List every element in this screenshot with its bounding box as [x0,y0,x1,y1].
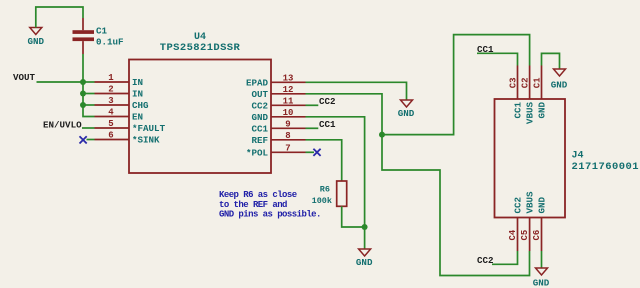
J4 pin C2 VBUS [521,66,536,125]
svg-text:C1: C1 [533,77,543,88]
svg-text:2: 2 [108,85,113,95]
op-amp U4 body [129,32,271,173]
wire REF to R6 top [306,140,342,181]
svg-text:GND: GND [533,278,550,288]
svg-text:GND: GND [398,108,415,119]
svg-text:C2: C2 [521,77,531,88]
svg-text:2171760001: 2171760001 [572,161,640,173]
svg-text:12: 12 [283,85,294,95]
wire GND pin 10 down to junction [306,117,365,249]
ground symbol GND (R6) [356,249,373,268]
svg-text:CHG: CHG [132,100,149,111]
wire pin C1 to ground (top right) [542,53,560,69]
wire VOUT to pin 1 [37,81,84,83]
svg-text:100k: 100k [312,196,332,206]
J4 pin C6 GND [532,196,548,251]
svg-text:GND: GND [537,102,548,119]
svg-text:4: 4 [108,108,114,118]
svg-text:CC1: CC1 [251,123,268,134]
J4 pin C3 CC1 [509,66,524,119]
svg-text:C4: C4 [508,229,518,240]
wire stub pin 9 [306,127,319,129]
U4 pin 10 GND [251,108,305,123]
U4 pin 1 IN [95,73,144,88]
wire bus stub to pin 1 [83,81,95,83]
svg-text:IN: IN [132,77,143,88]
connector J4 body [495,99,640,218]
U4 pin 11 CC2 [251,96,305,111]
svg-text:1: 1 [108,73,114,83]
svg-text:GND: GND [28,36,45,47]
svg-text:6: 6 [108,131,113,141]
svg-text:9: 9 [285,119,290,129]
svg-text:VBUS: VBUS [525,191,536,214]
U4 pin 2 IN [95,85,144,100]
junction GND/R6 [362,224,368,230]
junction at pin 2 [80,91,86,97]
wire stub pin 7 [306,151,315,153]
wire C1 bottom to input bus [83,54,95,117]
svg-text:EN: EN [132,112,143,123]
wire EN/UVLO to pin 5 [82,127,95,129]
U4 pin 3 CHG [95,96,150,111]
no-connect X on pin 6 [80,136,87,143]
U4 pin 5 *FAULT [95,119,166,134]
svg-text:5: 5 [108,119,113,129]
junction OUT net [379,132,385,138]
svg-text:8: 8 [285,131,290,141]
wire EPAD to ground [306,82,407,100]
svg-text:OUT: OUT [251,89,268,100]
svg-text:C3: C3 [509,77,519,88]
U4 pin 12 OUT [251,85,305,100]
ground symbol GND (J4 bottom) [533,268,550,288]
U4 pin 6 *SINK [95,131,161,146]
svg-text:CC1: CC1 [319,119,336,130]
ground symbol GND (J4 top) [551,69,568,91]
no-connect X on pin 7 [313,149,320,156]
U4 pin 7 *POL [246,143,306,158]
svg-text:C1: C1 [96,26,108,37]
svg-text:VOUT: VOUT [13,72,36,83]
ground symbol GND (EPAD) [398,100,415,119]
svg-text:REF: REF [251,135,268,146]
wire CC2 to pin C4 [492,251,518,264]
wire junction to VBUS top (C2) [382,35,530,135]
svg-text:GND: GND [551,80,568,91]
J4 pin C4 CC2 [508,197,524,251]
junction at pin 1 [80,79,86,85]
wire bus stub to pin 2 [83,93,95,95]
U4 pin 8 REF [251,131,305,146]
wire GND to C1 top [36,7,83,28]
J4 pin C5 VBUS [520,191,536,251]
wire R6 bottom to junction [342,206,365,227]
U4 pin 9 CC1 [251,119,305,134]
svg-text:CC1: CC1 [513,102,524,119]
svg-text:TPS25821DSSR: TPS25821DSSR [160,42,241,54]
svg-text:7: 7 [285,143,290,153]
U4 pin 13 EPAD [246,73,306,88]
svg-text:11: 11 [283,96,294,106]
svg-text:to the REF and: to the REF and [219,200,287,210]
wire junction to VBUS bottom (C5) [382,135,530,276]
U4 pin 4 EN [95,108,144,123]
svg-text:*SINK: *SINK [132,135,160,146]
svg-text:CC2: CC2 [251,100,268,111]
wire pin C6 to ground (bottom right) [541,251,543,268]
wire stub pin 6 [87,139,95,141]
svg-text:*POL: *POL [246,147,269,158]
svg-text:IN: IN [132,89,143,100]
svg-text:CC2: CC2 [513,197,524,214]
ground symbol GND (top left) [28,28,45,48]
resistor R6 100k [312,181,347,206]
wire CC1 to pin C3 [477,53,518,65]
svg-text:CC2: CC2 [319,96,336,107]
svg-text:GND: GND [356,257,373,268]
wire OUT to junction [306,94,383,135]
svg-text:GND: GND [251,112,268,123]
svg-text:CC2: CC2 [477,255,494,266]
svg-text:3: 3 [108,96,113,106]
svg-text:EPAD: EPAD [246,77,269,88]
junction at pin 3 [80,102,86,108]
wire bus stub to pin 3 [83,104,95,106]
svg-text:C5: C5 [520,230,530,241]
J4 pin C1 GND [533,66,548,119]
svg-text:*FAULT: *FAULT [132,123,166,134]
svg-text:0.1uF: 0.1uF [96,37,124,48]
wire stub pin 11 [306,104,319,106]
svg-text:10: 10 [283,108,294,118]
svg-text:VBUS: VBUS [525,102,536,125]
svg-text:GND pins as possible.: GND pins as possible. [219,210,321,220]
svg-text:Keep R6 as close: Keep R6 as close [219,190,297,200]
svg-text:GND: GND [537,196,548,213]
svg-text:EN/UVLO: EN/UVLO [43,120,82,131]
svg-text:13: 13 [283,73,294,83]
note text [219,190,321,220]
svg-text:R6: R6 [320,185,330,195]
capacitor C1 0.1uF [73,18,124,54]
svg-text:C6: C6 [532,230,542,241]
